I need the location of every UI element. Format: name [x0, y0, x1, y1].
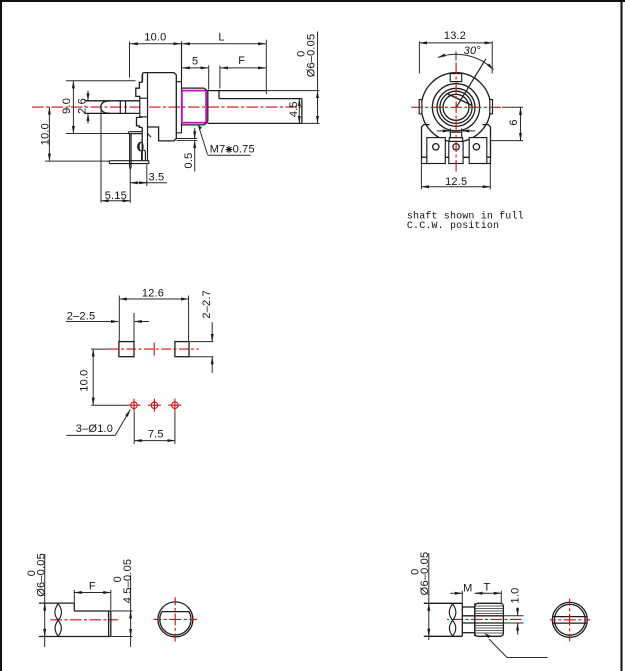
- terminal lug (center, rounded end): [101, 101, 111, 114]
- svg-text:10.0: 10.0: [79, 369, 91, 391]
- dim 1.0 (slot): [517, 607, 519, 615]
- dim 0.5 (washer): [194, 128, 196, 139]
- centerline (red): [51, 619, 119, 621]
- knurl leader: [489, 639, 507, 658]
- svg-text:0: 0: [409, 569, 421, 575]
- svg-text:30°: 30°: [464, 45, 482, 57]
- crimp tab 1 (upper, stepped hook): [136, 82, 142, 98]
- terminal eyelet through plate: [140, 98, 148, 117]
- dim 12.6: [118, 296, 120, 342]
- boss / bushing base: [176, 81, 181, 83]
- centerlines (red): [411, 106, 501, 108]
- dim 30 deg arc: [455, 52, 457, 61]
- dim Ø6 0/-0.05 (shaft dia): [266, 90, 319, 92]
- dim 6: [502, 106, 523, 108]
- dim F: [219, 65, 221, 88]
- svg-text:2–2.7: 2–2.7: [201, 290, 213, 319]
- inner circle with flat chord: [160, 612, 191, 635]
- dim 4.5 0/-0.05: [112, 610, 133, 612]
- terminal 1: [427, 138, 446, 164]
- dim 10.0 top: [129, 42, 131, 78]
- dim 5.15: [100, 110, 102, 203]
- shaft end chamfer circle: [443, 94, 469, 120]
- center tick (red): [153, 343, 155, 356]
- shaft with flat, side silhouette: [39, 602, 75, 604]
- shaft cross-section circle: [158, 602, 193, 637]
- terminal holes: [433, 144, 439, 150]
- svg-text:7.5: 7.5: [148, 429, 164, 441]
- svg-text:M: M: [463, 583, 472, 595]
- dim dia6 0/-0.05: [428, 553, 430, 640]
- svg-text:5: 5: [192, 56, 198, 68]
- svg-text:3.5: 3.5: [148, 171, 164, 183]
- svg-text:4.5: 4.5: [288, 101, 300, 117]
- svg-text:12.6: 12.6: [142, 287, 164, 299]
- dim 12.5: [420, 159, 422, 189]
- dim M: [461, 591, 463, 603]
- break figure-8: [449, 604, 455, 636]
- knurl hatch (horizontal serrations): [475, 606, 504, 633]
- shaft cross-section circle with slot: [552, 602, 587, 637]
- dim 7.5: [133, 412, 135, 444]
- mounting slot square left: [119, 342, 134, 357]
- centerline (red): [447, 618, 523, 620]
- terminal hole 1 (red): [131, 402, 138, 409]
- svg-text:13.2: 13.2: [444, 30, 466, 42]
- terminal hole 2 (red): [151, 402, 158, 409]
- mounting bracket: [422, 125, 430, 158]
- shaft flat chord: [448, 94, 473, 106]
- bracket feet: [422, 157, 430, 163]
- dim 13.2: [418, 41, 420, 73]
- slot extension lines: [503, 615, 523, 617]
- svg-text:5.15: 5.15: [105, 190, 127, 202]
- svg-text:10.0: 10.0: [39, 123, 51, 145]
- bottom locating tab: [450, 132, 461, 138]
- tab width arrows: [449, 128, 451, 132]
- plate bottom U-notch: [142, 150, 146, 161]
- svg-text:12.5: 12.5: [445, 176, 467, 188]
- crimp tab 3 (long thin): [128, 132, 142, 134]
- svg-text:0: 0: [26, 570, 38, 576]
- drawing frame border: [0, 0, 625, 2]
- svg-text:0: 0: [295, 51, 307, 57]
- mounting slot square right: [175, 342, 189, 357]
- shaft: [208, 90, 266, 92]
- dim F: [73, 590, 75, 603]
- shaft circle: [440, 91, 472, 123]
- pot body circle: [421, 73, 490, 142]
- side tab right: [490, 100, 493, 114]
- svg-text:3–Ø1.0: 3–Ø1.0: [76, 423, 113, 435]
- screwdriver slot: [462, 615, 503, 617]
- leader M7x0.75: [199, 128, 208, 155]
- bushing bore circle: [437, 88, 475, 126]
- dim L: [265, 40, 267, 94]
- washer 0.5: [177, 138, 198, 140]
- centerline (red dash-dot): [32, 106, 304, 108]
- svg-text:6: 6: [508, 119, 520, 125]
- collar circle: [432, 84, 479, 131]
- dim 2-2.7: [189, 341, 213, 343]
- dim 10.0: [91, 348, 109, 350]
- dim 2.6: [87, 91, 89, 101]
- dim 5: [208, 65, 210, 89]
- svg-text:C.C.W. position: C.C.W. position: [407, 220, 499, 232]
- PCB pin: [129, 134, 131, 168]
- svg-text:M7: M7: [210, 144, 226, 156]
- dim 9.0: [66, 80, 136, 82]
- svg-text:0: 0: [112, 576, 124, 582]
- neck groove: [462, 606, 475, 608]
- dim 4.5 (flat): [298, 99, 300, 124]
- centerline through slots (red): [109, 348, 199, 350]
- dim 3.5: [146, 165, 148, 187]
- break figure-8: [55, 604, 61, 637]
- threaded bushing M7 (magenta): [182, 91, 206, 123]
- svg-text:0.75: 0.75: [233, 144, 255, 156]
- knurled head: [475, 603, 504, 636]
- bracket plate: [141, 75, 143, 83]
- cross centerlines (red): [569, 599, 571, 642]
- svg-text:2.6: 2.6: [76, 98, 88, 114]
- cross centerlines (red): [174, 597, 176, 641]
- side tab left: [419, 100, 422, 114]
- svg-text:0.5: 0.5: [183, 153, 195, 169]
- crimp tab 2 (lower, stepped hook): [137, 117, 143, 127]
- body rear chamfer corner: [148, 133, 152, 137]
- anti-rotation tab top: [450, 74, 462, 82]
- dim T: [500, 591, 502, 603]
- flat position indicator line: [456, 59, 486, 107]
- svg-text:F: F: [238, 55, 245, 67]
- svg-text:1.0: 1.0: [509, 588, 521, 604]
- shaft cylinder: [424, 602, 463, 604]
- svg-text:T: T: [484, 581, 491, 593]
- svg-text:L: L: [218, 31, 224, 43]
- mounting foot: [109, 161, 149, 164]
- svg-text:F: F: [89, 580, 96, 592]
- terminal 2: [449, 141, 463, 163]
- terminal hole 3 (red): [172, 402, 179, 409]
- pot body block: [145, 73, 177, 141]
- svg-text:2–2.5: 2–2.5: [67, 310, 96, 322]
- svg-text:9.0: 9.0: [61, 98, 73, 114]
- rivet on plate: [139, 142, 143, 151]
- svg-text:10.0: 10.0: [144, 31, 166, 43]
- terminal 3: [469, 138, 487, 164]
- dim dia6 0/-0.05: [44, 554, 46, 647]
- dim 10.0 left: [45, 160, 109, 162]
